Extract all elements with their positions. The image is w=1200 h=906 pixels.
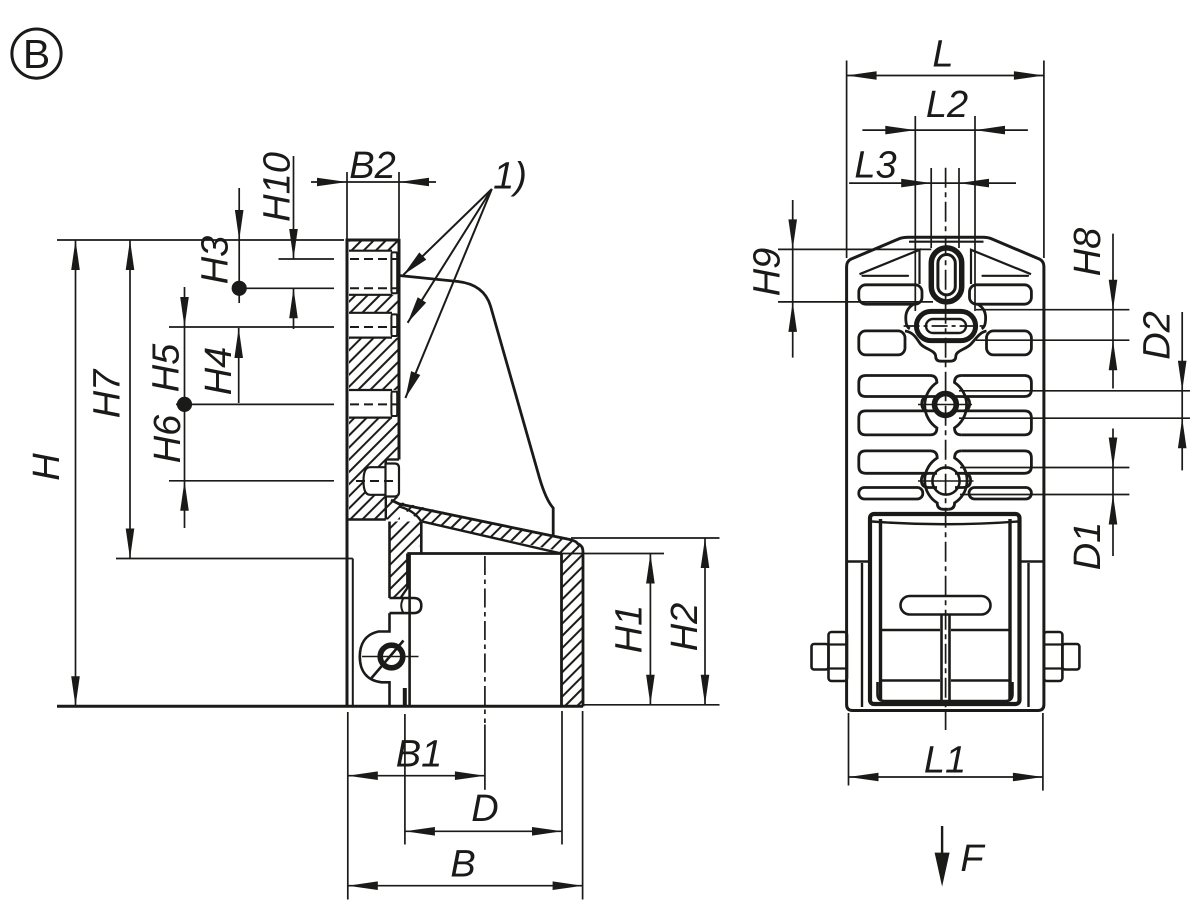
svg-text:B2: B2 [349, 145, 395, 187]
ext line slot1 upper [279, 258, 335, 260]
cover strip outer edge [391, 500, 579, 545]
tube wall outer edge [579, 544, 583, 707]
leader lines for note 1) [403, 189, 491, 398]
ext D left [404, 714, 406, 845]
baseline [57, 705, 583, 708]
tube left inner wall [408, 554, 411, 707]
screw crosshair [362, 656, 419, 658]
arrowhead H2 top [701, 538, 710, 568]
obround centerline [904, 325, 987, 327]
svg-text:H2: H2 [664, 603, 706, 652]
upper hole ear arc right [955, 376, 967, 435]
dim D1 line [1112, 429, 1114, 557]
arrowhead H bottom [71, 676, 80, 706]
slot S1 dashed centerline lower [350, 287, 399, 289]
roof inner base left [863, 275, 909, 277]
plate hatch bottom boundary [347, 518, 386, 520]
T stem left [940, 615, 943, 703]
retaining pin [390, 598, 422, 613]
obround upper ear left [906, 304, 914, 329]
slot S2 end cap [391, 314, 397, 336]
arrowhead D2 bottom [1178, 418, 1187, 448]
slot row R6 left [859, 488, 923, 500]
dim H7 line [129, 240, 131, 559]
arrowhead H7 top [126, 240, 135, 270]
slot row R4 right [961, 411, 1031, 435]
arrowhead H9 bottom [788, 302, 797, 332]
arrowhead B2 left [317, 178, 347, 187]
arrowhead D right [532, 827, 562, 836]
lower hole rib cap left [921, 473, 937, 487]
arrowhead H10 bottom [289, 288, 298, 318]
svg-text:B: B [450, 844, 475, 886]
slot row R2 left [859, 331, 905, 355]
svg-text:H10: H10 [257, 152, 299, 222]
dim L3 line [849, 182, 1016, 184]
roof inner line left [860, 250, 920, 284]
arrowhead H10 top [289, 229, 298, 259]
slot row R5 right [961, 451, 1031, 473]
lower hole circle [932, 467, 959, 494]
lower hole crosshair [918, 480, 974, 482]
ext line H7 bottom [116, 558, 353, 560]
dim H2 line [704, 538, 706, 705]
svg-text:D1: D1 [1067, 522, 1109, 571]
arrowhead L2 left [885, 126, 915, 135]
ext H1 top [562, 553, 665, 555]
ext D2 bottom [959, 417, 1190, 419]
baseline extension right [583, 704, 720, 706]
obround lower bowl [905, 331, 987, 361]
arrowhead force F [935, 853, 950, 887]
plate top edge [346, 239, 399, 242]
screw slot slash [372, 641, 404, 679]
plate right edge upper [398, 239, 401, 460]
ext line slot3 [176, 403, 334, 405]
upper hole rib cap left [922, 397, 937, 411]
body outline [847, 237, 1044, 710]
ext H9 top [778, 248, 931, 250]
hatch: plate band below slot4 cap [386, 497, 400, 520]
svg-text:H5: H5 [146, 343, 188, 392]
slot row R3 right [961, 376, 1031, 397]
dim H line [75, 240, 77, 706]
top slot outer [931, 248, 961, 302]
bolt right flats [1044, 645, 1063, 669]
slot S1 edges [349, 251, 392, 295]
top slot inner [938, 255, 955, 295]
ext H8 top [976, 309, 1129, 311]
roof inner base right [983, 275, 1029, 277]
dim H9 line [792, 200, 794, 358]
svg-text:H6: H6 [147, 414, 189, 463]
svg-text:H8: H8 [1067, 228, 1109, 277]
arrowhead H3 [235, 210, 244, 240]
ext L right [1043, 61, 1045, 259]
dim D line [405, 830, 562, 832]
slot S4 dashed centerline [356, 480, 398, 482]
obround inner [926, 319, 966, 333]
slot row R4 left [859, 411, 930, 435]
hatch: plate band 5 lower [349, 460, 386, 520]
upper hole ear arc left [925, 376, 937, 435]
arrowhead H8 bottom [1109, 340, 1118, 370]
slot S3 end cap [391, 392, 397, 416]
dot H5-H6 reference [177, 397, 192, 412]
ext L1 right [1042, 713, 1044, 791]
ext D right [561, 711, 563, 845]
plate step at notch [386, 458, 399, 460]
hatch: plate band 4 [349, 418, 399, 460]
ext L3 left [930, 168, 932, 248]
bottom jaw bar [878, 681, 1013, 702]
svg-text:L3: L3 [854, 145, 896, 187]
dim B2 line [311, 181, 436, 183]
arrowhead leader 1 [403, 252, 426, 274]
svg-text:H9: H9 [747, 248, 789, 297]
arrowhead leader 2 [408, 297, 427, 323]
slot S3 dashed centerline [350, 403, 399, 405]
ext L3 right [958, 168, 960, 248]
ext H9 bottom [778, 301, 933, 303]
arrowhead L left [847, 71, 877, 80]
arrowhead L3 left [901, 179, 931, 188]
slot S2 edges [349, 313, 392, 338]
tube top inner edge [407, 552, 561, 555]
upper hole crosshair [918, 404, 972, 406]
obround upper ear right [978, 304, 986, 329]
tube wall inner edge [560, 554, 563, 707]
lower hole rib cap right [955, 473, 971, 487]
ext L1 left [848, 713, 850, 786]
arrowhead L1 left [849, 773, 879, 782]
upper hole ring [935, 394, 957, 416]
arrowhead L1 right [1013, 773, 1043, 782]
upper hole rib cap right [955, 397, 970, 411]
bolt left head [829, 632, 848, 681]
ext D2 top [959, 390, 1190, 392]
svg-text:H4: H4 [198, 347, 240, 396]
ext line slot1 lower [246, 287, 334, 289]
arrowhead D1 top [1109, 438, 1118, 468]
svg-text:F: F [960, 838, 985, 880]
dim L line [847, 75, 1044, 77]
svg-text:H7: H7 [87, 368, 129, 418]
ext B2 right [398, 172, 400, 239]
dim B line [348, 885, 583, 887]
ext D1 bottom [960, 494, 1129, 496]
svg-text:B: B [23, 31, 50, 77]
slot row R1 left [859, 285, 922, 304]
lug left [847, 562, 870, 708]
obround outer [916, 311, 975, 340]
slot row R3 left [859, 376, 930, 397]
hatch: plate band 3 [349, 338, 399, 390]
roof inner line right [971, 250, 1031, 284]
arrowhead H5 [180, 297, 189, 327]
dim H5-H6 line [184, 287, 186, 528]
arrowhead H4 [234, 328, 243, 358]
bolt right tip [1062, 644, 1079, 670]
bolt left tip [812, 644, 829, 670]
dim L2 line [862, 129, 1028, 131]
ext B1 right centerline [484, 725, 486, 790]
dim H4 line [238, 328, 240, 403]
T stem right [948, 615, 951, 703]
ext B2 left [346, 172, 348, 239]
svg-text:L: L [932, 34, 953, 76]
arrowhead leader 3 [405, 371, 420, 398]
lug right [1020, 562, 1044, 708]
arrowhead H1 top [646, 554, 655, 584]
svg-text:D2: D2 [1137, 311, 1179, 360]
arrowhead L2 right [975, 126, 1005, 135]
cover bend vertical inner edge [420, 522, 423, 554]
dot H3 reference [232, 281, 247, 296]
svg-text:L2: L2 [926, 84, 968, 126]
ext L left [846, 61, 848, 259]
ext line slot2 [169, 326, 334, 328]
arrowhead D1 bottom [1109, 495, 1118, 525]
clamp split line [881, 629, 1011, 631]
svg-text:H: H [26, 453, 68, 481]
top extension line [57, 239, 344, 241]
svg-text:H1: H1 [609, 605, 651, 654]
dim H10 line lower [293, 288, 295, 329]
funnel profile curve [399, 276, 553, 537]
lower hole ear arc right [948, 451, 967, 509]
hatch: tube right wall [562, 541, 584, 707]
view label circle B [12, 29, 61, 78]
cover flange left edge [388, 522, 391, 599]
arrowhead B1 right [455, 771, 485, 780]
arrowhead B2 right [399, 178, 429, 187]
svg-text:L1: L1 [924, 740, 966, 782]
arrowhead B1 left [348, 771, 378, 780]
dim H3 line [238, 188, 240, 303]
cover flange right edge [401, 554, 408, 599]
arrowhead H9 top [788, 219, 797, 249]
clamp inner right [1008, 519, 1011, 700]
ext H2 top [571, 537, 720, 539]
ext L2 right [974, 116, 976, 311]
pin cylinder arc [401, 598, 403, 613]
arrowhead H7 bottom [126, 529, 135, 559]
arrowhead L3 right [959, 179, 989, 188]
contour below pin [360, 613, 390, 706]
svg-text:1): 1) [493, 156, 527, 198]
bolt left flats [829, 645, 848, 669]
roof inner top line [909, 241, 984, 243]
arrowhead D left [405, 827, 435, 836]
lower hole ear arc left [925, 451, 949, 509]
clamp inner left [879, 519, 882, 700]
dim H10 line upper [293, 156, 295, 259]
svg-text:H3: H3 [195, 236, 237, 285]
clamp top inner bow [872, 522, 1018, 525]
arrowhead L right [1014, 71, 1044, 80]
dim H1 line [649, 554, 651, 705]
ext B right [582, 711, 584, 900]
arrowhead H1 bottom [646, 675, 655, 705]
slot S3 edges [349, 390, 392, 418]
slot S1 dashed centerline upper [350, 258, 399, 260]
hatch: cover strip [391, 500, 577, 553]
cover strip bend line [399, 507, 421, 522]
slot row R5 left [859, 451, 930, 473]
hatch: plate band 2 [349, 295, 399, 313]
slot S1 end cap [391, 252, 397, 293]
arrowhead D2 top [1178, 361, 1187, 391]
force arrow line [941, 826, 943, 854]
plate left edge [346, 239, 349, 707]
cover strip inner edge [423, 522, 562, 554]
arrowhead B left [348, 881, 378, 890]
hatch: plate band top [349, 240, 399, 251]
dim D2 line [1181, 312, 1183, 470]
bottom feature tick [403, 688, 407, 707]
dim H8 line [1112, 234, 1114, 389]
dim L1 line [849, 776, 1043, 778]
slot S4 end cap tab [386, 464, 400, 497]
tube centerline [484, 556, 486, 723]
ext H8 bottom [976, 339, 1129, 341]
ext line slot4 [169, 480, 334, 482]
arrowhead H2 bottom [701, 675, 710, 705]
ext D1 top [960, 467, 1129, 469]
bolt right head [1044, 632, 1063, 681]
ext B/B1 left [347, 712, 349, 900]
slot row R2 right [987, 331, 1032, 355]
arrowhead H8 top [1109, 280, 1118, 310]
svg-text:B1: B1 [396, 734, 442, 776]
arrowhead H top [71, 240, 80, 270]
arrowhead H6 [180, 481, 189, 511]
arrowhead B right [553, 881, 583, 890]
dim B1 line [348, 775, 485, 777]
slot row R6 right [969, 488, 1031, 500]
slot S2 dashed centerline [350, 326, 399, 328]
screw head ring [380, 645, 403, 668]
weld seam line [352, 559, 354, 707]
ext L2 left [914, 116, 916, 311]
plate notch edge [385, 460, 387, 520]
slot row R1 right [970, 285, 1032, 304]
slot S4 white window [364, 467, 386, 495]
vertical centerline [945, 168, 947, 730]
clamp outer frame [870, 514, 1020, 704]
T-bar slot [901, 596, 991, 615]
hatch: cover flange column [390, 522, 422, 599]
svg-text:D: D [471, 788, 498, 830]
